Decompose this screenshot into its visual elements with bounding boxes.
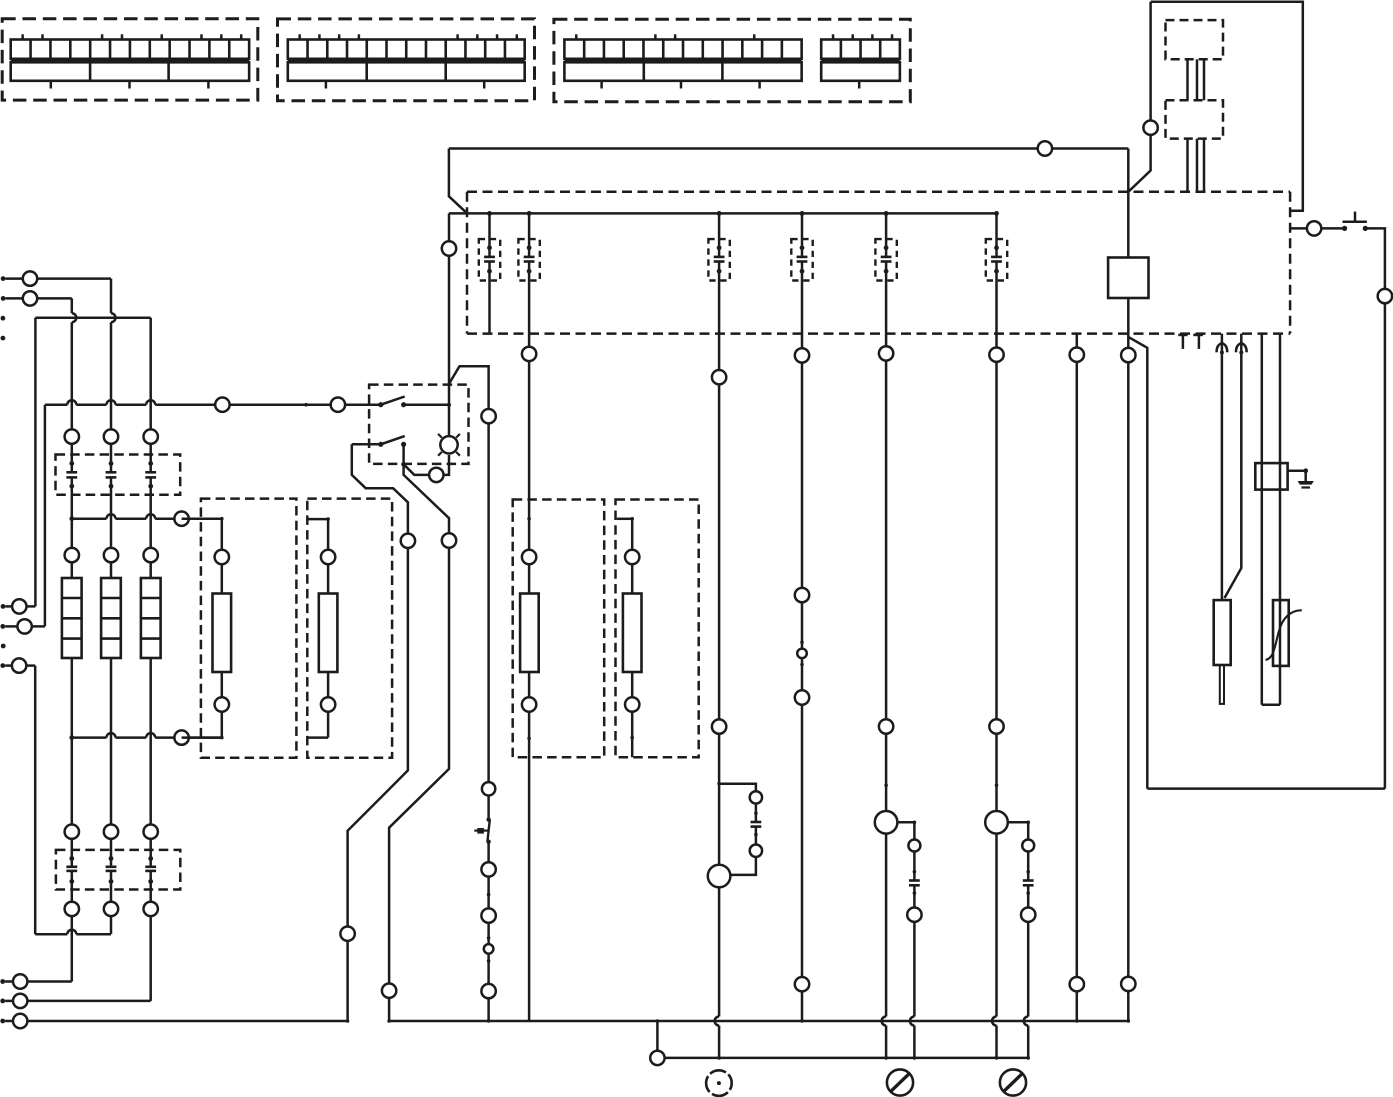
capacitor C2c (145, 856, 156, 884)
pump P1 (circle with slash) (887, 1069, 913, 1095)
terminal block X1 (dashed enclosure) (2, 19, 258, 100)
connector circle on winding feed (174, 512, 188, 526)
terminal V1 (dot and connector circle) (0, 994, 27, 1008)
wire: bottom-left terminal link y=1021 (0, 1014, 347, 1028)
timer spare stub T1 (1178, 335, 1187, 349)
temperature sensor B1 (1266, 600, 1302, 666)
inline switch on auxiliary drop (474, 817, 491, 844)
wire: heater feed x=1076.8 (1070, 334, 1084, 1023)
capacitor C1b (106, 461, 117, 489)
indicator lamp H1 (438, 434, 460, 456)
timer contact capacitor C5 (dashed box) (708, 239, 729, 280)
door switch box S1 (dashed) (369, 385, 468, 464)
terminal strip X2 cells (288, 34, 525, 88)
wire: aux feed x=802 (795, 271, 809, 1023)
wire: pump 1 feed x=886.1 (875, 271, 898, 1059)
capacitor C3 (484, 211, 495, 274)
pump 1 branch with capacitor (897, 821, 921, 1060)
terminal L2 (dot and connector circle) (1, 291, 72, 305)
timer heater relay block (square) (1108, 258, 1148, 299)
wire: vertical phase 3 (x=150.7) (27, 318, 150, 1001)
filter cable to timer box (1188, 139, 1205, 192)
switch S1b contacts and blade (352, 436, 406, 467)
suppressor capacitor box C2 (dashed) (56, 850, 180, 890)
capacitor C4 (524, 211, 535, 274)
connectors on auxiliary drop (481, 862, 495, 1023)
terminal W1 (dot and connector circle) with riser x=35.4 (1, 318, 36, 614)
capacitor C1c (145, 461, 156, 489)
capacitor C6 (797, 211, 808, 274)
terminal N1 (dot and connector circle) with drop wire x=35.2 (0, 658, 35, 934)
capacitor C2b (106, 856, 117, 884)
terminal U1 (dot and connector circle) (0, 974, 27, 988)
capacitor C4 lower lead (528, 271, 531, 333)
wire: enclosure branch diagonal to x=1147.3 (1128, 337, 1147, 789)
wire: program path via connector to bus end (382, 464, 456, 1023)
terminal block X3 (dashed enclosure) (554, 19, 910, 102)
wire: branch to auxiliary drop x=488.6 (449, 366, 496, 1021)
winding option box M4 (dashed) (616, 500, 699, 758)
thermostat F1 (box on capillary) (1255, 463, 1287, 490)
wire: lamp connector branch (404, 455, 449, 482)
timer contact capacitor C6 (dashed box) (791, 239, 812, 280)
winding M1 chain (182, 519, 232, 738)
filter box F2 upper (dashed) (1166, 20, 1224, 59)
wire: lamp top feed from timer bus corner (442, 213, 456, 436)
wire: phase bus y=317.7 from x=35.4 to x=150.7 (35, 316, 150, 319)
wire: top feed with droop diagonal (449, 149, 467, 214)
wire: timer supply bus y=213.4 (449, 212, 997, 215)
timer programme box (dashed outline) (467, 192, 1290, 334)
timer contact capacitor C8 (dashed box) (986, 239, 1007, 280)
wire: top link y=148.5 to main drop (449, 141, 1128, 155)
heating element R1 (1214, 600, 1231, 704)
stator winding stack W-b (101, 578, 121, 658)
winding M2 chain (309, 517, 338, 737)
wire: neutral return bus y=1021 (389, 1019, 1129, 1023)
timer contact capacitor C4 (dashed box) (518, 239, 539, 280)
switch S1a contacts and blade (378, 397, 451, 408)
heater plug wire 2 with arrow (1225, 334, 1247, 598)
wire: vertical phase 2 (x=111) (111, 279, 116, 935)
spare terminal dots (1, 316, 6, 341)
winding option box M1 (dashed) (201, 499, 297, 758)
connector circle on winding return (174, 730, 188, 744)
spare terminal dot (1, 644, 6, 649)
wire: service line with connector to push-button (1290, 221, 1345, 235)
timer contact capacitor C3 (dashed box) (479, 239, 500, 280)
wire: vertical phase 1 (x=71.8) (27, 298, 76, 981)
terminal L1 (dot and connector circle) (1, 271, 111, 285)
stator winding stack W-c (141, 578, 161, 658)
pump P2 (circle with slash) (1000, 1069, 1026, 1095)
filter box F3 lower (dashed) (1166, 100, 1224, 138)
motor M (dashed circle with centre dot) (706, 1070, 732, 1096)
wire: switch S1b left path to terminal (340, 444, 415, 1023)
connector circles above suppressor box C2 (65, 825, 158, 839)
capacitor C5 (714, 211, 725, 274)
winding M4 chain (617, 517, 642, 757)
timer contact capacitor C7 (dashed box) (875, 239, 896, 280)
pump 2 branch with capacitor (1008, 821, 1036, 1060)
filter cable between boxes (1188, 59, 1205, 100)
capacitor C1a (66, 461, 77, 489)
winding option box M2 (dashed) (307, 499, 392, 758)
capacitor C2a (66, 856, 77, 884)
wire: winding return y=737.6 (69, 733, 223, 740)
terminal PE2 (dot and connector circle) with riser x=44.9 (0, 405, 45, 634)
capacitor C8 (991, 211, 1002, 274)
winding option box M3 (dashed) (513, 500, 605, 758)
connector circles above stator stacks (65, 548, 158, 562)
wire: main drop x=1128.3 (1121, 149, 1135, 1023)
wire: lower bus y=1057.9 with connector (650, 1021, 1028, 1065)
connector circles below suppressor box C2 (65, 902, 158, 916)
terminal strip X1 cells (11, 34, 249, 88)
wire: winding feed y=518.7 (69, 514, 223, 521)
wire: pump 2 feed x=996.5 (985, 271, 1008, 1059)
connector circles on door-switch feed (215, 398, 381, 412)
heater plug wire 1 with arrow (1217, 334, 1228, 600)
terminal block X2 (dashed enclosure) (278, 19, 535, 101)
terminal strip X3b cells (821, 34, 900, 88)
connector circles above suppressor box C1 (65, 429, 158, 443)
wire: horizontal y=404.7 to door switch (45, 400, 331, 406)
winding M3 chain (520, 334, 539, 1021)
ground symbol at thermostat (1288, 468, 1314, 488)
capacitor C3 lower stub (488, 271, 491, 333)
stator winding stack W-a (62, 578, 82, 658)
suppressor capacitor box C1 (dashed) (56, 455, 181, 495)
motor capacitor loop with plug connectors (708, 782, 762, 887)
appliance enclosure outline (1128, 2, 1303, 211)
push-button S2 (normally open) (1342, 212, 1368, 231)
thermostat capillary wires (1262, 334, 1280, 705)
wire: push-button to enclosure right edge (1147, 228, 1392, 788)
wire: drain pump feed x=719.1 (712, 271, 726, 1059)
timer spare stub T2 (1193, 335, 1203, 349)
terminal strip X3a cells (564, 34, 801, 88)
capacitor C7 (881, 211, 892, 274)
wire: bottom link y=934.2 hopping phase1 (35, 930, 111, 935)
